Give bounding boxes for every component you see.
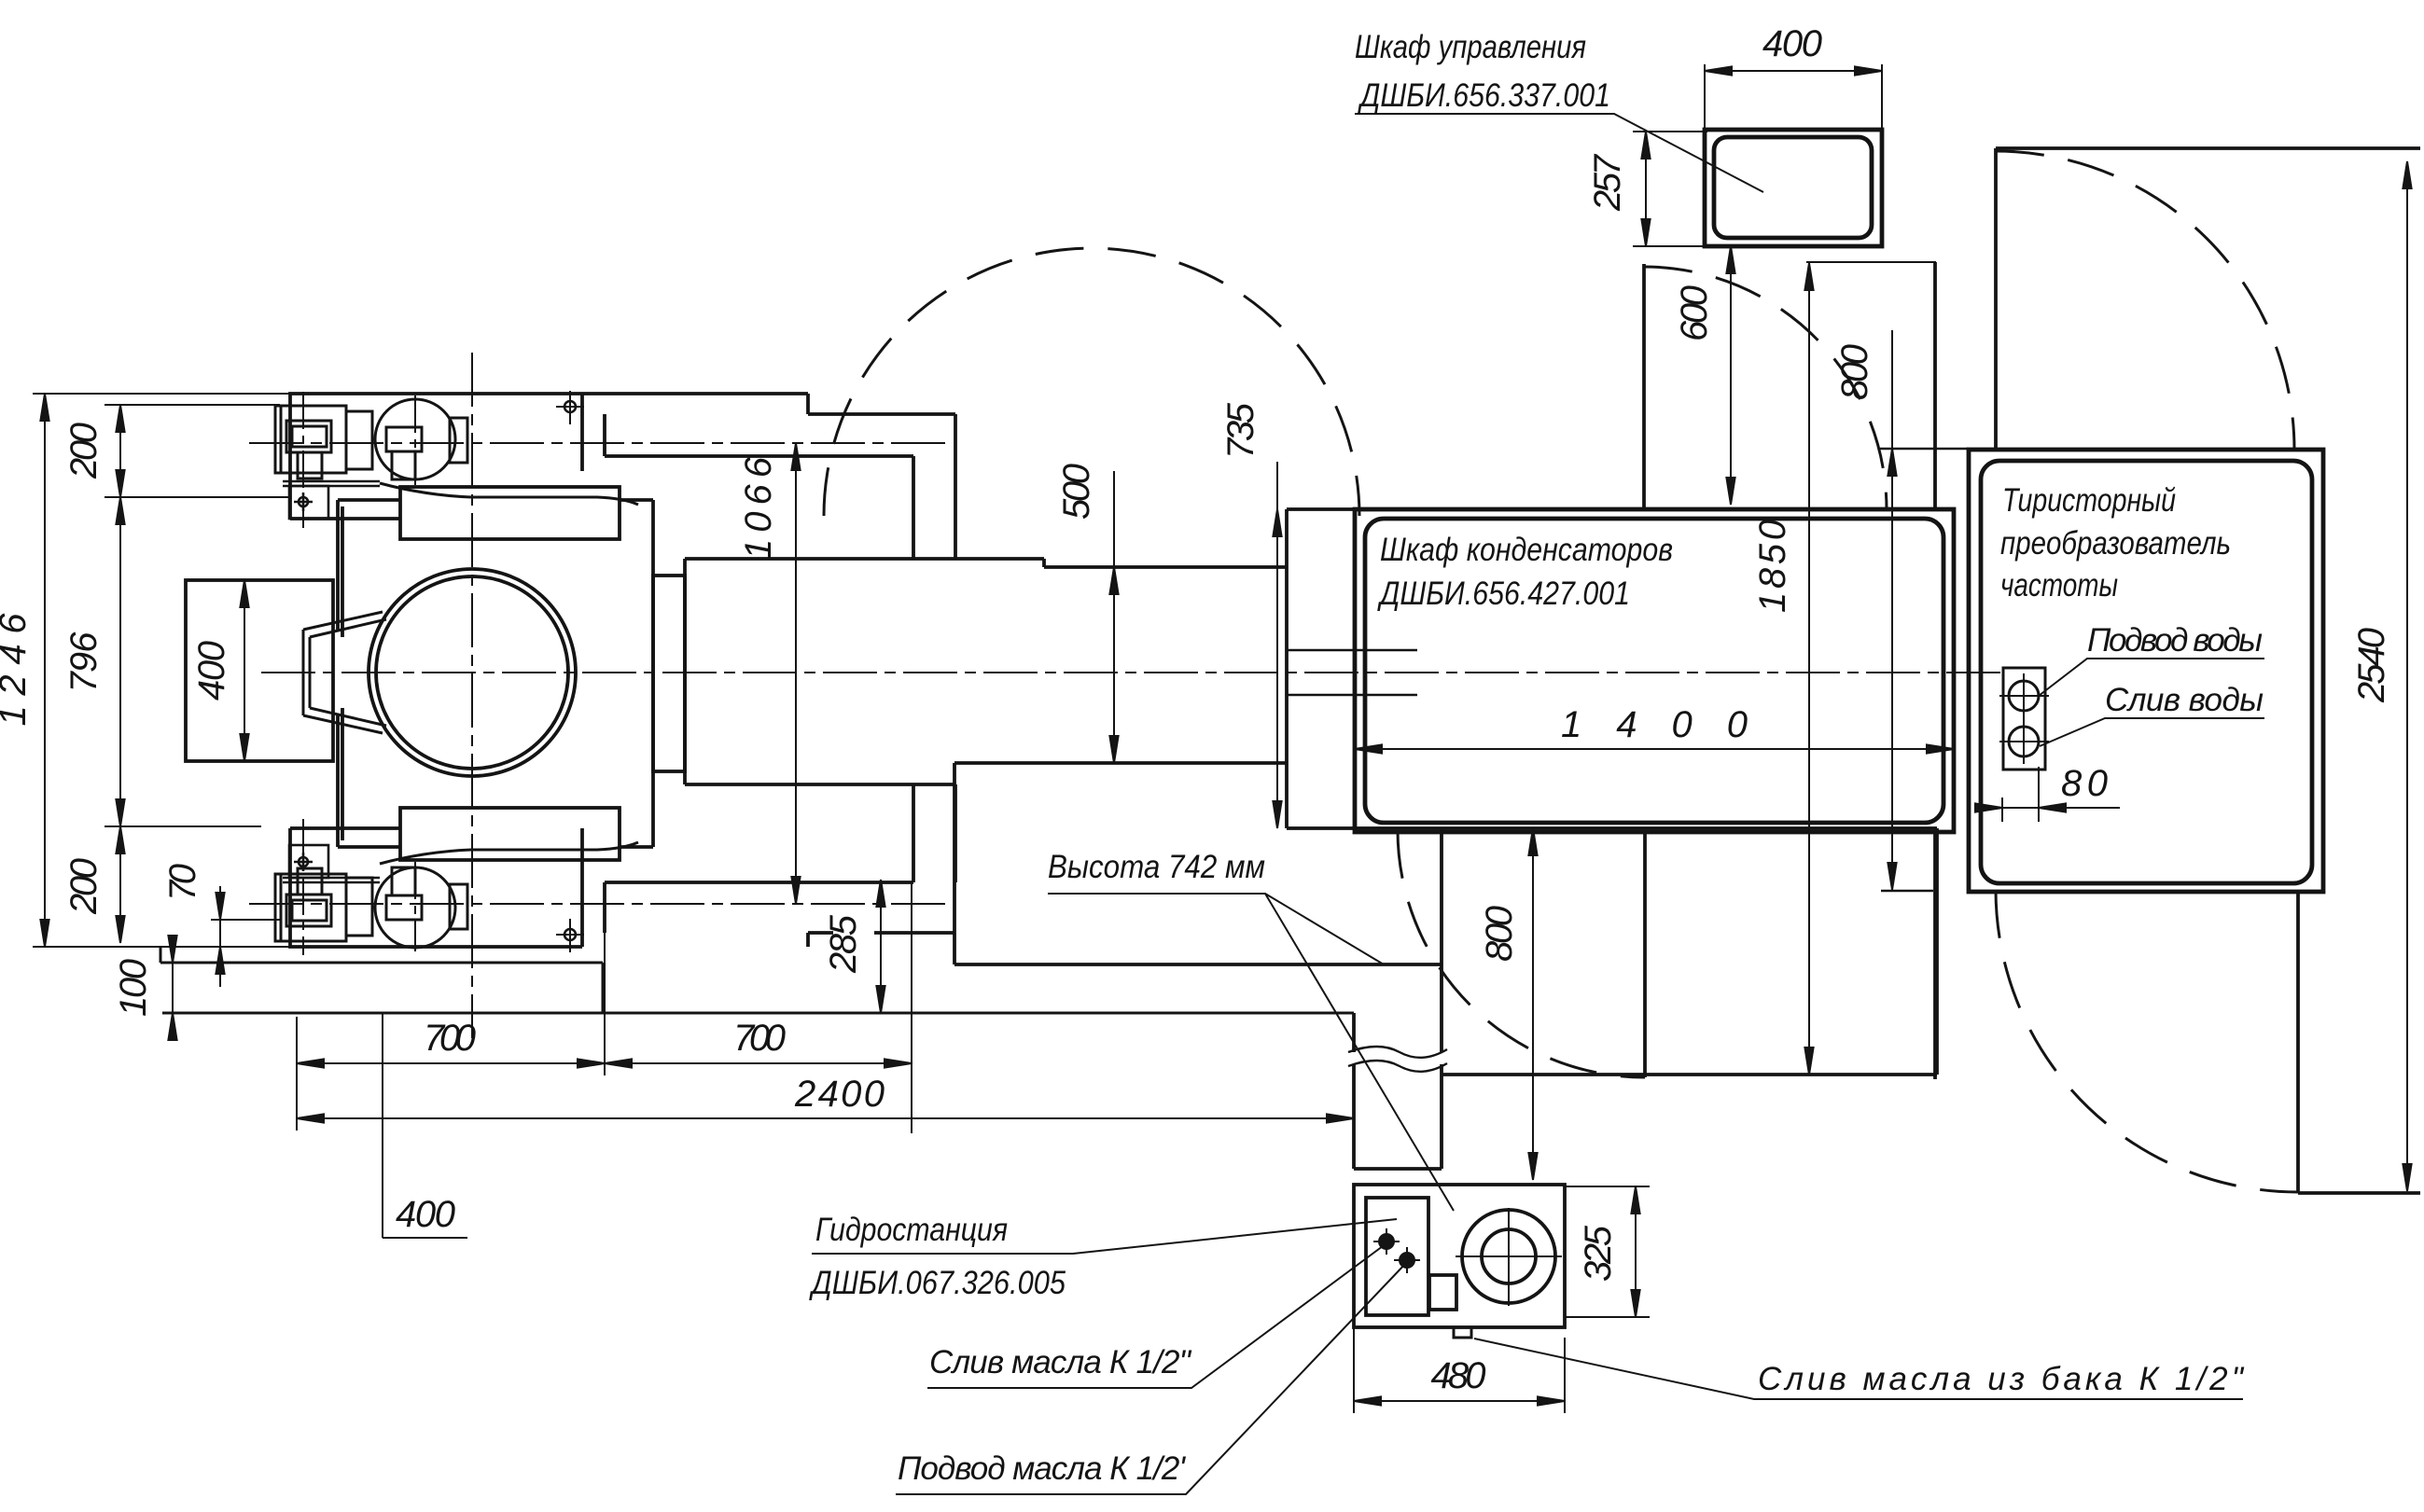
top arm xyxy=(605,414,955,559)
dim 480 xyxy=(1354,1327,1565,1413)
svg-text:800: 800 xyxy=(1479,906,1520,962)
svg-text:Слив воды: Слив воды xyxy=(2105,682,2264,718)
left block 400 xyxy=(186,580,333,761)
svg-text:Высота 742 мм: Высота 742 мм xyxy=(1048,849,1265,885)
dim 400 bottom xyxy=(383,1013,467,1238)
top boundary line right xyxy=(1996,146,2420,150)
dim 400 block xyxy=(240,580,248,761)
centerline clamp left bottom xyxy=(302,819,304,955)
centerline clamp right bottom xyxy=(414,862,416,951)
centerline horizontal xyxy=(261,672,2006,673)
dim 400 top xyxy=(1705,64,1882,130)
svg-text:2540: 2540 xyxy=(2351,628,2392,703)
machine bottom plate xyxy=(290,828,582,947)
svg-text:700: 700 xyxy=(424,1018,476,1059)
dim 80 xyxy=(1975,767,2120,822)
leader control cabinet xyxy=(1355,114,1763,192)
cap door top-left xyxy=(1642,264,1646,509)
svg-text:ДШБИ.656.337.001: ДШБИ.656.337.001 xyxy=(1358,77,1610,114)
svg-text:200: 200 xyxy=(63,423,104,479)
svg-text:325: 325 xyxy=(1578,1225,1619,1282)
ext lines left stack xyxy=(104,405,289,920)
thyristor door top swing arc xyxy=(1996,151,2294,450)
centerline vertical xyxy=(471,353,473,1038)
pedestal column xyxy=(1354,964,1442,1169)
centerline clamp right top xyxy=(414,395,416,485)
foundation lines below machine xyxy=(33,394,1354,1013)
cap door top-left swing arc xyxy=(1644,267,1887,509)
ext lines bottom dims xyxy=(297,882,912,1133)
dim 800 bottom xyxy=(1528,828,1537,1180)
svg-text:100: 100 xyxy=(113,959,154,1017)
water pipe block xyxy=(1999,668,2049,770)
funnel xyxy=(303,612,386,733)
dim 200 top xyxy=(116,405,124,497)
dim 500 xyxy=(1109,471,1118,763)
svg-text:285: 285 xyxy=(823,914,864,974)
svg-text:200: 200 xyxy=(63,858,104,915)
label sliv masla iz baka xyxy=(1758,1361,2245,1397)
control cabinet label xyxy=(1355,29,1610,114)
dim 600 xyxy=(1726,246,1734,505)
thyristor door bottom xyxy=(2296,890,2300,1193)
break line on column xyxy=(1348,1047,1447,1072)
leader podvod masla xyxy=(896,1262,1407,1494)
cap door top-right xyxy=(1933,262,1937,509)
centerline top arm xyxy=(249,442,948,444)
dim 200 bottom xyxy=(116,826,124,943)
dim 796 xyxy=(116,497,124,826)
machine top plate xyxy=(290,394,808,519)
centerline bottom arm xyxy=(249,903,948,905)
leader sliv masla iz baka xyxy=(1474,1339,2243,1399)
oil bolt 1 xyxy=(1373,1228,1400,1255)
dim 800 top xyxy=(1888,330,1896,890)
dim 700 left xyxy=(297,1059,605,1067)
svg-text:ДШБИ.067.326.005: ДШБИ.067.326.005 xyxy=(808,1265,1066,1301)
cap door bottom-right xyxy=(1933,832,1937,1079)
svg-text:400: 400 xyxy=(396,1194,455,1235)
svg-text:600: 600 xyxy=(1674,285,1715,341)
svg-text:Гидростанция: Гидростанция xyxy=(815,1212,1008,1248)
leader vysota 742 xyxy=(1048,894,1454,1211)
svg-text:Шкаф конденсаторов: Шкаф конденсаторов xyxy=(1380,532,1673,568)
dim 325 xyxy=(1565,1186,1650,1317)
dim 285 xyxy=(876,880,885,1013)
ref segment y481 xyxy=(1880,448,1969,450)
capacitor cabinet label xyxy=(1377,532,1673,612)
body top slot xyxy=(400,487,620,539)
leader gidrostancia xyxy=(812,1219,1397,1254)
pit outline xyxy=(954,509,1937,1075)
clamp screw top-left xyxy=(275,406,372,479)
dim 257 xyxy=(1633,132,1707,246)
thyristor cabinet label xyxy=(2000,482,2231,603)
svg-text:частоты: частоты xyxy=(2000,567,2118,603)
label podvod masla xyxy=(898,1450,1186,1487)
svg-text:257: 257 xyxy=(1587,153,1628,212)
label podvod vody xyxy=(2087,622,2263,659)
svg-text:400: 400 xyxy=(191,641,232,701)
mount hole bottom xyxy=(556,919,584,952)
svg-text:480: 480 xyxy=(1431,1355,1486,1396)
dim 2400 xyxy=(297,1114,1354,1122)
clamp roller bottom xyxy=(375,867,467,948)
induction circle xyxy=(369,569,576,776)
svg-text:Подвод воды: Подвод воды xyxy=(2087,622,2263,659)
bottom arm xyxy=(605,784,955,947)
svg-text:Тиристорный: Тиристорный xyxy=(2002,482,2176,519)
svg-text:ДШБИ.656.427.001: ДШБИ.656.427.001 xyxy=(1377,576,1630,612)
capacitor cabinet xyxy=(1355,509,1954,832)
svg-text:преобразователь: преобразователь xyxy=(2000,525,2231,562)
dim 735 xyxy=(1273,462,1281,828)
dim 2540 xyxy=(2403,161,2411,1191)
cap door bottom-left xyxy=(1643,830,1647,1077)
machine body xyxy=(338,500,685,847)
bottom boundary line right xyxy=(2298,1191,2420,1195)
svg-text:Шкаф управления: Шкаф управления xyxy=(1355,29,1586,65)
oil bolt 2 xyxy=(1394,1247,1420,1273)
door ext line y281 xyxy=(1806,261,1936,263)
shaft lines xyxy=(1287,650,1417,695)
svg-text:735: 735 xyxy=(1220,402,1261,459)
svg-text:Слив масла К 1/2": Слив масла К 1/2" xyxy=(929,1344,1192,1380)
machine swing arc xyxy=(824,248,1359,516)
bracket top xyxy=(283,481,380,519)
label sliv masla xyxy=(929,1344,1192,1380)
mount hole top xyxy=(556,391,584,424)
thyristor door bottom swing arc xyxy=(1996,890,2298,1192)
label vysota 742 xyxy=(1048,849,1265,885)
dim 1850 xyxy=(1804,263,1813,1075)
clamp screw bottom-left xyxy=(275,868,372,941)
dim 1066 xyxy=(791,443,800,904)
dim 1246 xyxy=(40,394,49,947)
dim 700 right xyxy=(605,1059,912,1067)
beam narrow section xyxy=(954,559,1287,784)
svg-text:700: 700 xyxy=(733,1018,786,1059)
leader sliv masla xyxy=(927,1243,1386,1388)
beam wide section xyxy=(685,559,1044,784)
centerline clamp left top xyxy=(302,392,304,528)
hydro station xyxy=(1354,1185,1565,1338)
leader sliv vody xyxy=(2040,718,2264,746)
body bottom slot xyxy=(400,808,620,860)
dim 1400 xyxy=(1355,744,1954,753)
ref segment y955 xyxy=(1881,890,1933,892)
label dshbi 067 xyxy=(808,1265,1066,1301)
cap door bottom-left swing arc xyxy=(1398,830,1645,1077)
svg-text:500: 500 xyxy=(1056,464,1097,520)
svg-text:400: 400 xyxy=(1762,23,1822,64)
control cabinet xyxy=(1705,130,1882,246)
body bottom cover curve xyxy=(380,842,638,864)
label sliv vody xyxy=(2105,682,2264,718)
dim 70 xyxy=(216,886,224,987)
dim 100 xyxy=(168,935,176,1041)
clamp roller top xyxy=(375,399,467,479)
svg-text:796: 796 xyxy=(63,631,104,693)
svg-text:800: 800 xyxy=(1834,344,1875,400)
leader podvod vody xyxy=(2039,659,2264,696)
thyristor cabinet xyxy=(1969,450,2323,892)
pump circle xyxy=(1456,1208,1562,1306)
bracket bottom xyxy=(283,845,380,882)
label gidrostancia xyxy=(815,1212,1008,1248)
svg-text:Подвод масла К 1/2': Подвод масла К 1/2' xyxy=(898,1450,1186,1487)
thyristor door top xyxy=(1994,148,1998,450)
svg-text:70: 70 xyxy=(162,864,203,901)
body top cover curve xyxy=(380,483,638,505)
